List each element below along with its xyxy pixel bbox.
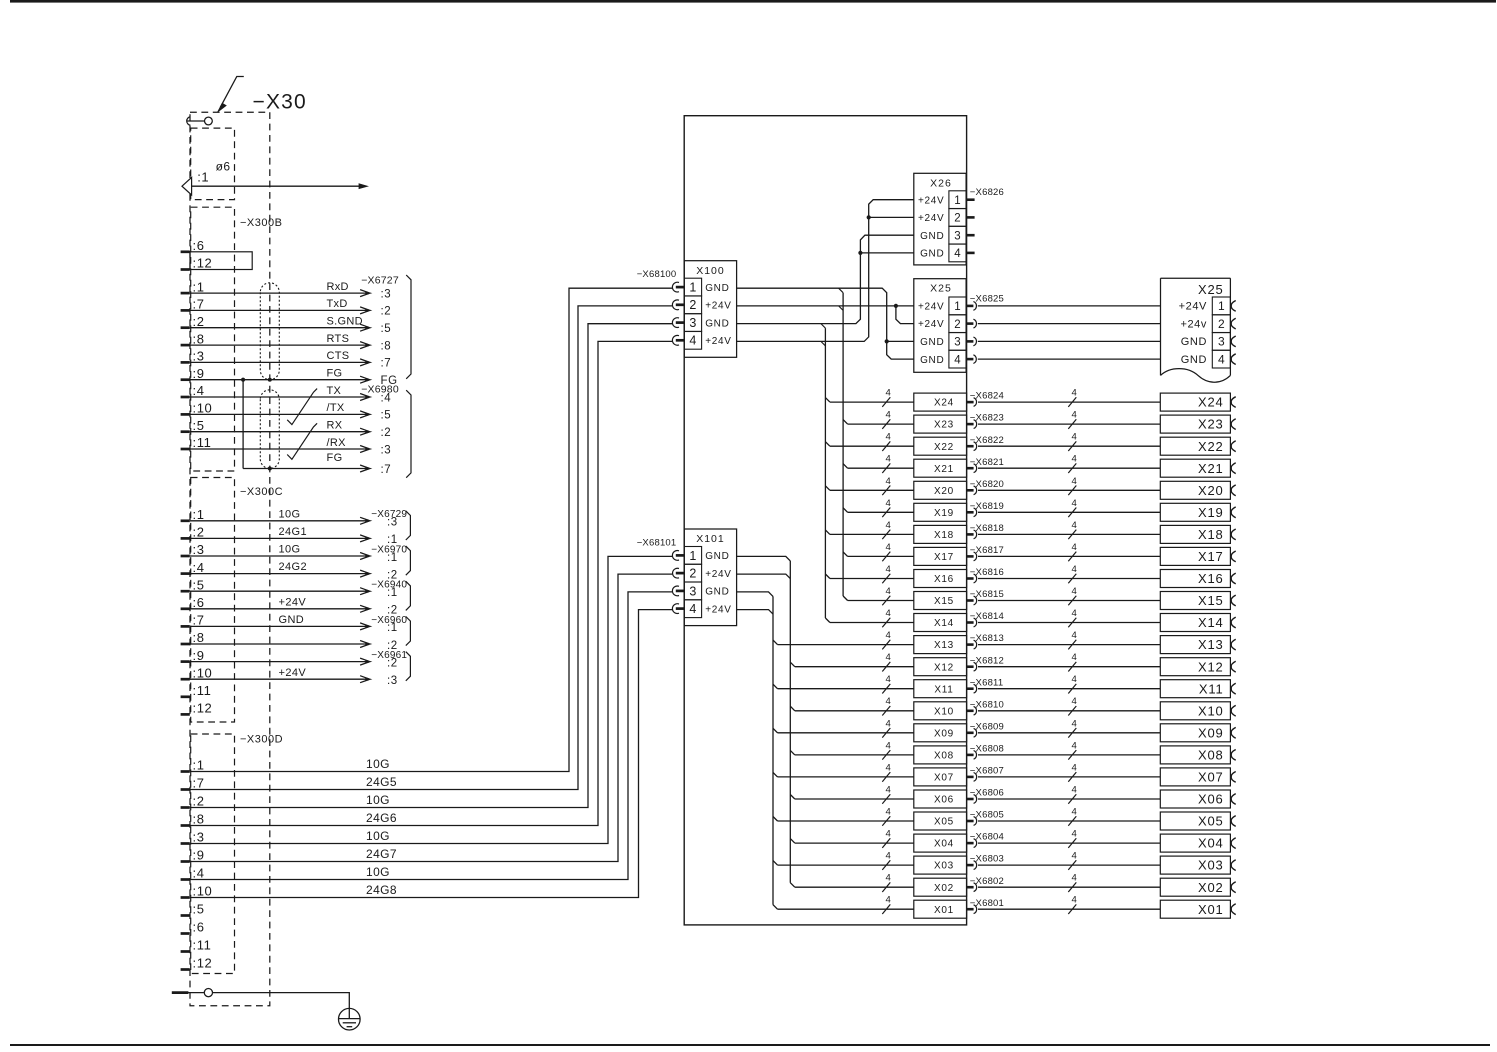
svg-text:10G: 10G xyxy=(366,829,390,843)
cable marker 4-core (right) X22 xyxy=(1068,441,1076,451)
bracket −X6729 xyxy=(406,511,411,540)
pin -X300D:7 xyxy=(181,788,190,791)
wire 10G (-X300D:2 to X100:3) xyxy=(190,324,672,808)
svg-text:10G: 10G xyxy=(366,757,390,771)
svg-text:GND: GND xyxy=(920,337,944,348)
socket contact X13 (field) xyxy=(1231,639,1236,650)
svg-text:X05: X05 xyxy=(1198,814,1224,829)
cable marker 4-core (right) X21 xyxy=(1068,463,1076,473)
plug contact X25:3 xyxy=(966,340,973,343)
wire bus to X09 xyxy=(778,732,914,734)
plug contact X02 xyxy=(967,886,974,889)
svg-text:3: 3 xyxy=(689,584,696,598)
plug contact X15 xyxy=(967,599,974,602)
wire RTS xyxy=(190,344,367,346)
svg-text:X13: X13 xyxy=(1198,637,1224,652)
pin -X300B:2 xyxy=(181,326,190,329)
pin -X300C:10 xyxy=(181,678,190,681)
pin -X300C:1 xyxy=(181,519,190,522)
svg-text:GND: GND xyxy=(920,231,944,242)
svg-text:/TX: /TX xyxy=(327,402,345,414)
svg-text:−X6826: −X6826 xyxy=(970,187,1004,198)
svg-text:4: 4 xyxy=(886,873,891,884)
wire X07 cable xyxy=(978,776,1160,778)
wire -X300C:7 GND xyxy=(190,625,367,627)
svg-text:4: 4 xyxy=(1072,851,1077,862)
svg-text::4: :4 xyxy=(193,560,205,575)
pin stub X26:3 xyxy=(966,234,975,237)
main unit enclosure xyxy=(684,116,966,925)
svg-text:3: 3 xyxy=(1218,335,1225,349)
connector X03 (field side) xyxy=(1160,856,1230,874)
wire X24 cable xyxy=(978,401,1160,403)
socket contact X100:2 xyxy=(672,300,679,310)
svg-text:4: 4 xyxy=(1072,718,1077,729)
wire X03 cable xyxy=(978,864,1160,866)
tap X05 from bus xyxy=(773,817,778,822)
wire X18 cable xyxy=(978,533,1160,535)
socket contact X101:2 xyxy=(673,568,679,578)
svg-text:−X6804: −X6804 xyxy=(970,832,1004,843)
tap X22 from bus xyxy=(825,442,830,447)
svg-text::2: :2 xyxy=(381,306,392,318)
cable marker 4-core (left) X22 xyxy=(882,441,890,451)
svg-text:4: 4 xyxy=(1218,352,1225,366)
pin stub X26:4 xyxy=(966,252,975,255)
svg-text::7: :7 xyxy=(193,613,205,628)
connector X07 (field side) xyxy=(1160,768,1230,786)
connector X22 (field side) xyxy=(1160,437,1230,455)
svg-text:−X6818: −X6818 xyxy=(970,523,1004,534)
connector X19 (unit side) xyxy=(914,503,967,521)
connector X21 (unit side) xyxy=(914,459,967,477)
cable marker 4-core (left) X08 xyxy=(882,750,890,760)
bus X100:1/2 (right upper) xyxy=(839,288,844,293)
svg-text:X08: X08 xyxy=(934,751,954,762)
svg-text:+24V: +24V xyxy=(279,596,307,608)
plug contact X03 xyxy=(967,864,974,867)
cable shield capsule (upper) xyxy=(260,283,279,380)
wire X04 cable xyxy=(978,842,1160,844)
plug contact X18 xyxy=(967,533,974,536)
cable marker 4-core (right) X18 xyxy=(1068,530,1076,540)
socket contact X09 (field) xyxy=(1231,727,1236,738)
junction X25:3 GND xyxy=(885,339,889,343)
svg-text:4: 4 xyxy=(886,388,891,399)
svg-text:−X6825: −X6825 xyxy=(970,294,1004,305)
wire -X300C:3 10G xyxy=(190,555,367,557)
svg-text::3: :3 xyxy=(381,444,392,456)
svg-text::8: :8 xyxy=(193,630,205,645)
cable marker 4-core (left) X20 xyxy=(882,486,890,496)
svg-text:X10: X10 xyxy=(1198,703,1224,718)
cable marker 4-core (right) X03 xyxy=(1068,860,1076,870)
junction shield to FG xyxy=(241,378,245,382)
connector X06 (unit side) xyxy=(914,790,967,808)
svg-text:24G7: 24G7 xyxy=(366,847,397,861)
svg-text:RTS: RTS xyxy=(327,333,350,345)
connector -X300C dashed box xyxy=(191,478,235,723)
cable marker 4-core (left) X19 xyxy=(882,508,890,518)
wire X26:2 +24V feed xyxy=(869,216,914,218)
connector X11 (field side) xyxy=(1160,680,1230,698)
plug contact X22 xyxy=(967,445,974,448)
pin -X300D:11 xyxy=(181,950,190,953)
svg-text:/RX: /RX xyxy=(327,437,347,449)
plug contact X04 xyxy=(967,842,974,845)
svg-text:1: 1 xyxy=(954,195,960,207)
socket contact X14 (field) xyxy=(1231,617,1236,628)
cable marker 4-core (right) X12 xyxy=(1068,662,1076,672)
pin -X300B:5 xyxy=(181,430,190,433)
cable arrow (hollow triangle) with line xyxy=(182,177,192,195)
socket contact X101:4 xyxy=(672,604,679,614)
svg-text::11: :11 xyxy=(193,938,212,953)
svg-text:4: 4 xyxy=(886,476,891,487)
svg-text:1: 1 xyxy=(954,301,960,313)
svg-text:24G2: 24G2 xyxy=(279,561,308,573)
svg-text::7: :7 xyxy=(381,358,392,370)
socket contact X04 (field) xyxy=(1231,838,1236,849)
svg-text::5: :5 xyxy=(381,410,392,422)
svg-text:−X6809: −X6809 xyxy=(970,721,1004,732)
svg-text:−X6810: −X6810 xyxy=(970,699,1004,710)
junction shield capsule lower to FG wire xyxy=(268,467,272,471)
socket contact X25:3 (field) xyxy=(1231,336,1236,347)
wire -X300C:6 +24V xyxy=(190,608,367,610)
svg-text:4: 4 xyxy=(1072,586,1077,597)
tap X17 from bus xyxy=(843,552,848,557)
plug contact X07 xyxy=(967,776,974,779)
connector -X300B dashed box xyxy=(191,207,235,471)
socket contact X10 (field) xyxy=(1231,705,1236,716)
svg-text:−X6816: −X6816 xyxy=(970,567,1004,578)
cable marker 4-core (right) X20 xyxy=(1068,486,1076,496)
socket contact X23 (field) xyxy=(1231,419,1236,430)
connector X26 xyxy=(914,173,966,265)
svg-text::5: :5 xyxy=(193,902,205,917)
svg-text:4: 4 xyxy=(1072,807,1077,818)
wire bus to X01 xyxy=(778,908,914,910)
wire /TX xyxy=(190,413,367,415)
connector X16 (field side) xyxy=(1160,570,1230,588)
svg-text:X18: X18 xyxy=(934,530,954,541)
svg-text::2: :2 xyxy=(387,657,398,669)
plug contact X13 xyxy=(967,643,974,646)
plug contact X01 xyxy=(967,908,974,911)
svg-text::3: :3 xyxy=(193,349,205,364)
wire TX xyxy=(190,396,367,398)
svg-text:−X6802: −X6802 xyxy=(970,876,1004,887)
wire bus to X05 xyxy=(778,820,914,822)
tap X18 from bus xyxy=(825,530,830,535)
cable marker 4-core (right) X11 xyxy=(1068,684,1076,694)
pin -X300B:1 xyxy=(181,292,190,295)
svg-text:1: 1 xyxy=(689,281,696,295)
svg-text:X22: X22 xyxy=(934,442,954,453)
socket contact X07 (field) xyxy=(1231,772,1236,783)
svg-text:4: 4 xyxy=(886,807,891,818)
svg-text:4: 4 xyxy=(886,454,891,465)
tap X09 from bus xyxy=(773,728,778,733)
socket contact X08 (field) xyxy=(1231,750,1236,761)
cable entry box :1 (dashed) xyxy=(191,128,235,200)
wire X19 cable xyxy=(978,511,1160,513)
cable marker 4-core (left) X13 xyxy=(882,640,890,650)
svg-text:X25: X25 xyxy=(930,283,952,295)
cable marker 4-core (left) X01 xyxy=(882,904,890,914)
svg-text:X03: X03 xyxy=(934,861,954,872)
svg-text:2: 2 xyxy=(689,298,696,312)
svg-text:+24V: +24V xyxy=(918,195,944,206)
wire bus to X07 xyxy=(778,776,914,778)
pin -X300D:6 xyxy=(181,932,190,935)
connector X01 (field side) xyxy=(1160,900,1230,918)
wire bus to X06 xyxy=(795,798,914,800)
wire 24G5 (-X300D:7 to X100:2) xyxy=(190,306,672,790)
svg-text:GND: GND xyxy=(279,614,305,626)
plug contact X25:2 xyxy=(966,322,973,325)
svg-text:X03: X03 xyxy=(1198,858,1224,873)
svg-text:−X6817: −X6817 xyxy=(970,545,1004,556)
wire X14 cable xyxy=(978,622,1160,624)
plug contact X25:1 xyxy=(966,305,973,308)
jumper box pins :6-:12 xyxy=(190,252,252,270)
svg-text:−X6824: −X6824 xyxy=(970,391,1004,402)
wire bus to X16 xyxy=(830,578,914,580)
tap X13 from bus xyxy=(773,640,778,645)
wire X10 cable xyxy=(978,710,1160,712)
wire bus to X14 xyxy=(830,622,914,624)
cable marker 4-core (right) X17 xyxy=(1068,552,1076,562)
svg-text:FG: FG xyxy=(327,452,343,464)
connector X05 (field side) xyxy=(1160,812,1230,830)
svg-text:X01: X01 xyxy=(1198,902,1224,917)
svg-text:+24V: +24V xyxy=(918,213,944,224)
svg-text::11: :11 xyxy=(193,683,212,698)
junction X26 GND xyxy=(858,251,862,255)
svg-text:4: 4 xyxy=(886,498,891,509)
pin -X300D:4 xyxy=(181,878,190,881)
svg-text::3: :3 xyxy=(387,675,398,687)
svg-text:X20: X20 xyxy=(1198,483,1224,498)
top border bar xyxy=(10,0,1496,3)
connector X15 (field side) xyxy=(1160,592,1230,610)
svg-text:X17: X17 xyxy=(1198,549,1224,564)
svg-text:X14: X14 xyxy=(934,618,954,629)
svg-text:4: 4 xyxy=(954,248,961,260)
pin -X300B:7 xyxy=(181,309,190,312)
tap X20 from bus xyxy=(825,486,830,491)
pin -X300C:11 xyxy=(181,695,190,698)
plug contact X08 xyxy=(967,754,974,757)
socket contact X11 (field) xyxy=(1231,683,1236,694)
svg-text:4: 4 xyxy=(886,652,891,663)
pin -X300C:12 xyxy=(181,713,190,716)
svg-text::5: :5 xyxy=(193,577,205,592)
cable marker 4-core (left) X11 xyxy=(882,684,890,694)
pin -X300C:7 xyxy=(181,625,190,628)
cable marker 4-core (right) X23 xyxy=(1068,419,1076,429)
wire X17 cable xyxy=(978,555,1160,557)
socket contact X06 (field) xyxy=(1231,794,1236,805)
cable marker 4-core (right) X04 xyxy=(1068,838,1076,848)
svg-text:X13: X13 xyxy=(934,640,954,651)
svg-text::5: :5 xyxy=(381,323,392,335)
cable marker 4-core (right) X15 xyxy=(1068,596,1076,606)
svg-text:X08: X08 xyxy=(1198,748,1224,763)
svg-text:+24v: +24v xyxy=(1180,318,1207,330)
svg-text:2: 2 xyxy=(689,567,696,581)
svg-text:10G: 10G xyxy=(279,508,301,520)
svg-text:−X6823: −X6823 xyxy=(970,413,1004,424)
wire bus to X03 xyxy=(778,864,914,866)
wire -X300C:4 24G2 xyxy=(190,573,367,575)
pin -X30 housing circle (top) xyxy=(187,117,191,126)
svg-text:ø6: ø6 xyxy=(216,160,231,174)
svg-text:S.GND: S.GND xyxy=(327,316,363,328)
svg-text:4: 4 xyxy=(1072,829,1077,840)
connector X18 (unit side) xyxy=(914,525,967,543)
svg-text:X19: X19 xyxy=(1198,505,1224,520)
wire PE to earth xyxy=(213,993,350,1009)
connector X12 (unit side) xyxy=(914,658,967,676)
svg-text:GND: GND xyxy=(705,318,729,329)
svg-text:4: 4 xyxy=(886,762,891,773)
svg-text:−X6801: −X6801 xyxy=(970,898,1004,909)
cable marker 4-core (right) X09 xyxy=(1068,728,1076,738)
svg-text:10G: 10G xyxy=(366,793,390,807)
connector X14 (field side) xyxy=(1160,614,1230,632)
svg-text:4: 4 xyxy=(886,410,891,421)
socket contact X24 (field) xyxy=(1231,397,1236,408)
socket contact X18 (field) xyxy=(1231,529,1236,540)
plug contact X20 xyxy=(967,489,974,492)
tap X24 from bus xyxy=(825,398,830,403)
wire bus to X08 xyxy=(795,754,914,756)
pin -X300B:9 xyxy=(181,378,190,381)
plug contact X09 xyxy=(967,731,974,734)
bottom border bar xyxy=(10,1044,1490,1046)
cable marker 4-core (left) X17 xyxy=(882,552,890,562)
svg-text:X09: X09 xyxy=(934,728,954,739)
svg-text:X17: X17 xyxy=(934,552,954,563)
svg-text:4: 4 xyxy=(689,602,696,616)
svg-text::3: :3 xyxy=(381,288,392,300)
connector X17 (unit side) xyxy=(914,547,967,565)
tap X12 from bus xyxy=(790,662,795,667)
svg-text:X02: X02 xyxy=(934,883,954,894)
svg-text:X12: X12 xyxy=(1198,659,1224,674)
svg-text:4: 4 xyxy=(886,586,891,597)
wire 24G8 (-X300D:10 to X101:4) xyxy=(190,610,672,898)
tap X07 from bus xyxy=(773,772,778,777)
svg-text:GND: GND xyxy=(1181,336,1207,348)
pin -X300C:3 xyxy=(181,555,190,558)
tap X19 from bus xyxy=(843,508,848,513)
svg-text::9: :9 xyxy=(193,848,205,863)
svg-text:X101: X101 xyxy=(696,533,725,545)
svg-text::7: :7 xyxy=(193,297,205,312)
svg-text::1: :1 xyxy=(387,552,398,564)
cable marker 4-core (right) X08 xyxy=(1068,750,1076,760)
svg-text:−X6815: −X6815 xyxy=(970,589,1004,600)
svg-text::4: :4 xyxy=(193,383,205,398)
connector X11 (unit side) xyxy=(914,680,967,698)
svg-text:X07: X07 xyxy=(1198,770,1224,785)
wire X25:2 +24V feed xyxy=(896,306,914,324)
cable marker 4-core (right) X06 xyxy=(1068,794,1076,804)
svg-text:X11: X11 xyxy=(1199,681,1224,696)
wire bus to X24 xyxy=(830,401,914,403)
connector X25 (field side, continued elsewhere) xyxy=(1161,277,1231,279)
svg-text:4: 4 xyxy=(1072,432,1077,443)
svg-text:4: 4 xyxy=(886,674,891,685)
pin -X300B:11 xyxy=(181,448,190,451)
wire X25:3 GND feed xyxy=(887,340,914,342)
wires X25 cable (4) xyxy=(978,305,1161,307)
svg-text:RxD: RxD xyxy=(327,281,349,293)
wire 10G (-X300D:3 to X101:1) xyxy=(190,556,672,843)
socket contact X16 (field) xyxy=(1231,573,1236,584)
svg-text:3: 3 xyxy=(954,337,960,349)
connector X23 (unit side) xyxy=(914,415,967,433)
svg-text::2: :2 xyxy=(193,525,205,540)
wire FG (shield drain, lower) xyxy=(242,380,244,469)
wire -X300C:5 xyxy=(190,590,367,592)
wire -X300C:1 10G xyxy=(190,520,367,522)
connector X10 (field side) xyxy=(1160,702,1230,720)
cable marker 4-core (left) X02 xyxy=(882,882,890,892)
svg-text::3: :3 xyxy=(387,517,398,529)
plug contact X10 xyxy=(967,709,974,712)
svg-text::2: :2 xyxy=(193,794,205,809)
cable marker 4-core (left) X23 xyxy=(882,419,890,429)
svg-text::3: :3 xyxy=(193,830,205,845)
socket contact X01 (field) xyxy=(1231,904,1236,915)
leader arrow to -X30 xyxy=(220,77,244,108)
wire bus to X21 xyxy=(848,467,914,469)
svg-text:3: 3 xyxy=(689,316,696,330)
socket contact X101:3 xyxy=(672,586,679,596)
wire bus to X20 xyxy=(830,489,914,491)
svg-text:4: 4 xyxy=(1072,696,1077,707)
wire X09 cable xyxy=(978,732,1160,734)
pin -X300C:4 xyxy=(181,572,190,575)
pin stub X26:2 xyxy=(966,216,975,219)
svg-text::8: :8 xyxy=(381,340,392,352)
svg-text::4: :4 xyxy=(193,866,205,881)
connector X21 (field side) xyxy=(1160,459,1230,477)
svg-text:X05: X05 xyxy=(934,817,954,828)
svg-text:4: 4 xyxy=(886,696,891,707)
cable marker 4-core (left) X16 xyxy=(882,574,890,584)
wire -X300C:10 +24V xyxy=(190,678,367,680)
cable marker 4-core (right) X07 xyxy=(1068,772,1076,782)
wire X100:2 +24V to X25:1 xyxy=(737,305,914,307)
svg-text:4: 4 xyxy=(1072,740,1077,751)
connector X24 (field side) xyxy=(1160,393,1230,411)
svg-text:4: 4 xyxy=(886,520,891,531)
svg-text:X11: X11 xyxy=(934,684,953,695)
wire bus to X10 xyxy=(795,710,914,712)
socket contact X17 (field) xyxy=(1231,551,1236,562)
tap X04 from bus xyxy=(790,839,795,844)
pin stub X26:1 xyxy=(966,198,975,201)
svg-text:4: 4 xyxy=(886,785,891,796)
plug contact X24 xyxy=(967,401,974,404)
connector X02 (unit side) xyxy=(914,878,967,896)
